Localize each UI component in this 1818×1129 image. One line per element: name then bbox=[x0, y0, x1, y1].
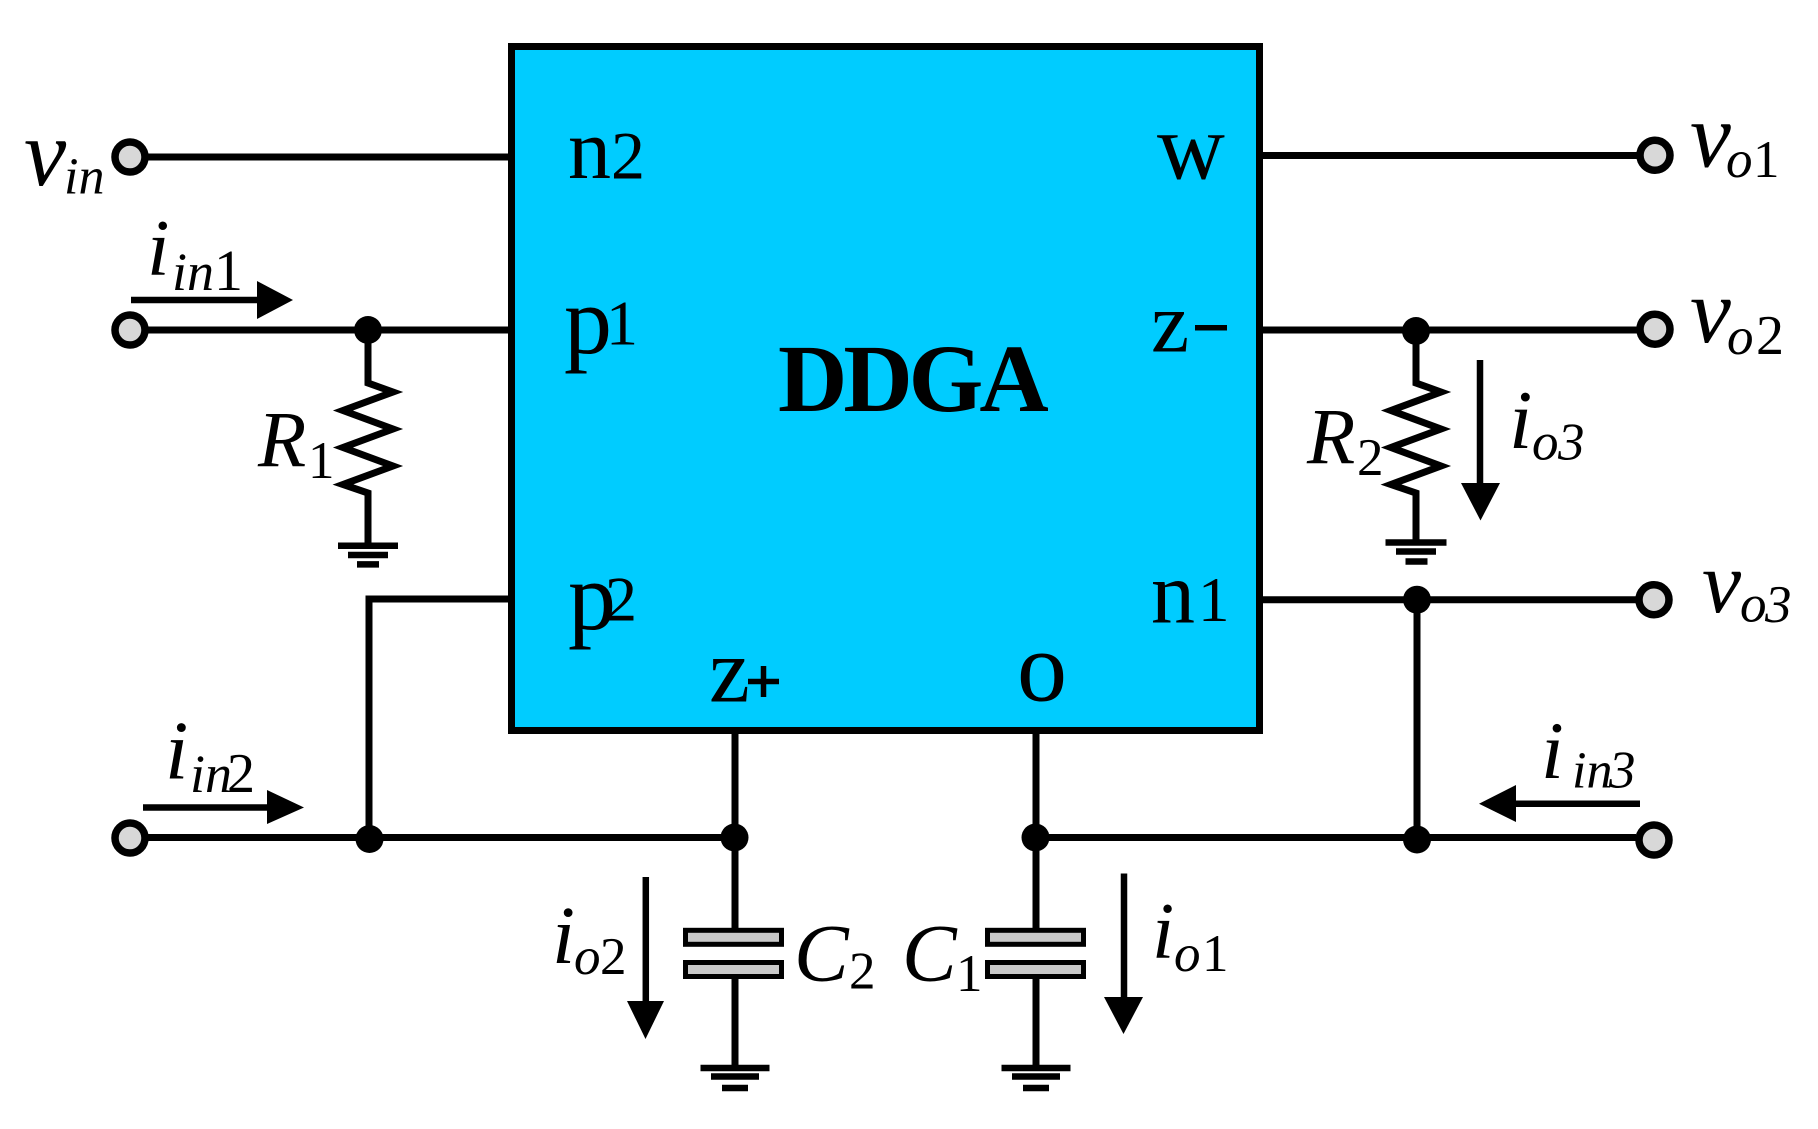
arrow i_in1 bbox=[131, 281, 293, 319]
svg-text:v: v bbox=[1690, 85, 1731, 187]
svg-text:3: 3 bbox=[1557, 414, 1585, 472]
wire p2 elbow bbox=[369, 599, 508, 839]
svg-text:o: o bbox=[1740, 576, 1767, 634]
svg-text:n: n bbox=[568, 101, 611, 197]
label i_in3 bbox=[1541, 705, 1636, 800]
arrow i_o2 bbox=[627, 877, 664, 1039]
label i_o1 bbox=[1152, 888, 1229, 983]
pin label w bbox=[1157, 96, 1225, 200]
svg-text:in: in bbox=[64, 149, 104, 206]
svg-text:C: C bbox=[794, 908, 850, 999]
svg-text:v: v bbox=[1702, 535, 1742, 632]
svg-text:p: p bbox=[564, 267, 612, 374]
svg-text:2: 2 bbox=[1756, 305, 1784, 367]
node z+ bus junction bbox=[721, 824, 749, 852]
svg-text:z: z bbox=[1151, 275, 1189, 371]
svg-text:o: o bbox=[1017, 611, 1067, 722]
terminal v_o3 bbox=[1639, 585, 1669, 615]
wire bus right bbox=[1036, 834, 1636, 841]
node p1-R1 junction bbox=[354, 316, 382, 344]
svg-text:v: v bbox=[24, 100, 67, 206]
svg-text:o: o bbox=[1727, 308, 1754, 366]
svg-text:z: z bbox=[709, 620, 750, 722]
node n1 wire junction bbox=[1403, 586, 1431, 614]
wire z+ stem bbox=[732, 730, 739, 1068]
label i_in2 bbox=[165, 705, 255, 805]
svg-text:in: in bbox=[172, 242, 214, 302]
terminal v_o1 bbox=[1640, 140, 1670, 170]
pin label z+ bbox=[709, 620, 779, 722]
svg-text:2: 2 bbox=[849, 942, 876, 1000]
terminal v_in bbox=[115, 142, 145, 172]
capacitor C2 bbox=[686, 908, 876, 1001]
ground under R1 bbox=[338, 546, 398, 565]
svg-text:1: 1 bbox=[1753, 131, 1780, 189]
wire p1 bbox=[148, 327, 508, 334]
svg-text:i: i bbox=[1152, 888, 1174, 976]
svg-text:2: 2 bbox=[605, 564, 637, 635]
resistor R2 bbox=[1306, 331, 1441, 543]
svg-text:i: i bbox=[552, 889, 575, 981]
label v_in bbox=[24, 100, 104, 206]
terminal i_in1 bbox=[115, 315, 145, 345]
arrow i_o3 bbox=[1461, 360, 1500, 521]
node p2 bus junction bbox=[356, 825, 384, 853]
pin label o bbox=[1017, 611, 1067, 722]
svg-text:in: in bbox=[1572, 743, 1612, 800]
svg-text:v: v bbox=[1690, 260, 1731, 362]
label v_o1 bbox=[1690, 85, 1780, 190]
wire bus left bbox=[148, 834, 735, 841]
wire n1 bbox=[1263, 596, 1636, 603]
capacitor C1 bbox=[902, 908, 1084, 1004]
wire z- bbox=[1263, 327, 1637, 334]
svg-text:1: 1 bbox=[606, 288, 638, 359]
svg-text:i: i bbox=[147, 203, 170, 293]
svg-text:2: 2 bbox=[611, 118, 645, 194]
node z- R2 junction bbox=[1402, 317, 1430, 345]
svg-text:i: i bbox=[165, 705, 188, 798]
ground under C2 bbox=[701, 1068, 770, 1088]
svg-text:1: 1 bbox=[308, 432, 335, 490]
svg-text:1: 1 bbox=[956, 945, 983, 1003]
svg-text:n: n bbox=[1151, 546, 1195, 643]
arrow i_in3 bbox=[1479, 785, 1640, 822]
svg-text:3: 3 bbox=[1608, 742, 1636, 800]
node o bus junction bbox=[1022, 824, 1050, 852]
svg-text:o: o bbox=[1174, 925, 1201, 983]
svg-text:i: i bbox=[1509, 374, 1532, 467]
wire w bbox=[1263, 152, 1637, 159]
svg-text:in: in bbox=[190, 744, 232, 804]
svg-text:2: 2 bbox=[600, 928, 627, 986]
svg-text:o: o bbox=[574, 928, 601, 986]
pin label n2 bbox=[568, 101, 645, 197]
ground under C1 bbox=[1002, 1068, 1071, 1088]
svg-text:o: o bbox=[1726, 131, 1753, 189]
svg-text:o: o bbox=[1532, 414, 1559, 472]
svg-text:1: 1 bbox=[1198, 565, 1230, 635]
svg-text:1: 1 bbox=[214, 238, 243, 303]
node n1 bus junction bbox=[1403, 826, 1431, 854]
svg-text:3: 3 bbox=[1764, 576, 1792, 634]
svg-text:DDGA: DDGA bbox=[778, 325, 1048, 432]
svg-text:2: 2 bbox=[227, 743, 255, 805]
pin label z- bbox=[1151, 275, 1227, 371]
svg-text:i: i bbox=[1541, 705, 1564, 796]
label i_in1 bbox=[147, 203, 243, 303]
ground under R2 bbox=[1386, 543, 1447, 562]
label i_o2 bbox=[552, 889, 627, 986]
resistor R1 bbox=[257, 330, 393, 546]
svg-text:1: 1 bbox=[1202, 925, 1229, 983]
arrow i_in2 bbox=[143, 790, 304, 824]
svg-text:R: R bbox=[257, 398, 306, 485]
terminal v_o2 bbox=[1640, 314, 1670, 344]
pin label n1 bbox=[1151, 546, 1230, 643]
terminal i_in2 bbox=[115, 823, 145, 853]
pin label p2 bbox=[568, 543, 637, 650]
label i_o3 bbox=[1509, 374, 1585, 472]
label v_o3 bbox=[1702, 535, 1792, 634]
wire o stem bbox=[1033, 730, 1040, 1068]
wire n2 bbox=[148, 154, 508, 161]
svg-text:w: w bbox=[1157, 96, 1225, 200]
wire n1 vertical bbox=[1414, 600, 1421, 840]
DDGA block U1 bbox=[512, 47, 1260, 731]
label v_o2 bbox=[1690, 260, 1784, 367]
pin label p1 bbox=[564, 267, 638, 374]
arrow i_o1 bbox=[1104, 874, 1143, 1035]
svg-text:C: C bbox=[902, 908, 958, 999]
terminal i_in3 bbox=[1639, 825, 1669, 855]
svg-text:2: 2 bbox=[1357, 429, 1384, 487]
svg-text:R: R bbox=[1306, 395, 1355, 482]
